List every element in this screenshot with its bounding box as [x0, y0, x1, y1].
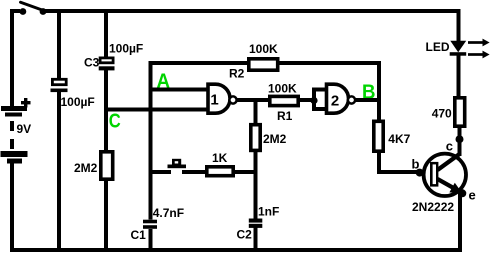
svg-text:100K: 100K — [268, 82, 297, 96]
svg-text:e: e — [469, 188, 476, 203]
svg-text:9V: 9V — [17, 122, 32, 136]
svg-text:R1: R1 — [277, 109, 293, 123]
svg-text:R2: R2 — [229, 67, 245, 81]
svg-text:B: B — [362, 82, 376, 104]
svg-text:4K7: 4K7 — [388, 132, 410, 146]
svg-text:100µF: 100µF — [109, 41, 143, 55]
svg-text:c: c — [446, 139, 453, 154]
svg-text:2M2: 2M2 — [263, 132, 287, 146]
svg-text:1: 1 — [210, 91, 218, 108]
svg-text:C3: C3 — [84, 56, 100, 70]
svg-text:2: 2 — [331, 92, 339, 109]
svg-text:100µF: 100µF — [61, 95, 95, 109]
svg-text:1K: 1K — [212, 151, 228, 165]
svg-text:LED: LED — [426, 40, 450, 54]
svg-text:100K: 100K — [249, 42, 278, 56]
svg-text:C2: C2 — [237, 228, 253, 242]
svg-text:470: 470 — [432, 107, 452, 121]
svg-text:2N2222: 2N2222 — [412, 200, 454, 214]
svg-text:A: A — [157, 70, 171, 92]
svg-text:b: b — [412, 156, 420, 171]
svg-text:C: C — [109, 110, 121, 132]
svg-text:4.7nF: 4.7nF — [153, 206, 184, 220]
svg-text:1nF: 1nF — [258, 205, 279, 219]
svg-text:C1: C1 — [131, 228, 147, 242]
svg-text:2M2: 2M2 — [74, 161, 98, 175]
